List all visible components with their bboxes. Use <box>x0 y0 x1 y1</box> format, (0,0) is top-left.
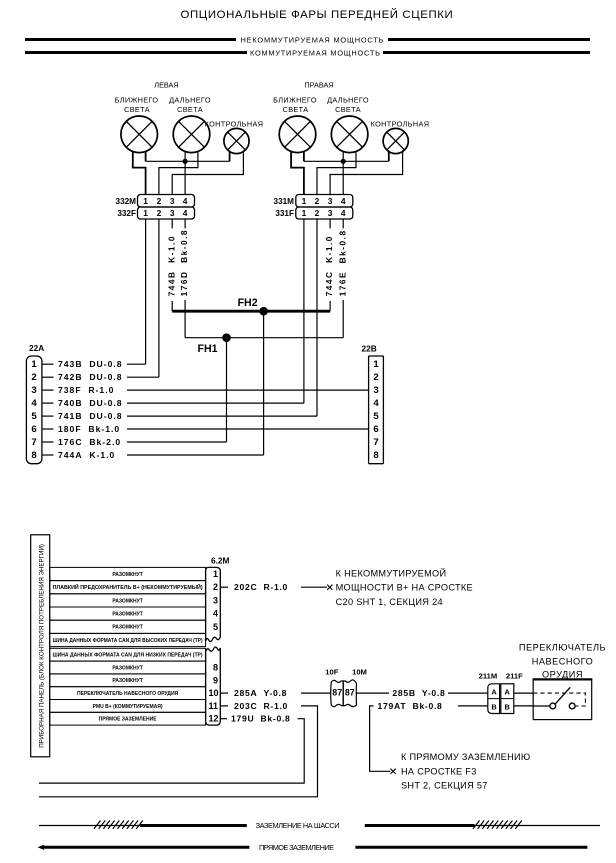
6.2M row 12 box: ПРЯМОЕ ЗАЗЕМЛЕНИЕ <box>50 712 206 725</box>
svg-text:8: 8 <box>213 663 218 673</box>
svg-text:РАЗОМКНУТ: РАЗОМКНУТ <box>112 598 142 604</box>
svg-text:ШИНА ДАННЫХ ФОРМАТА CAN ДЛЯ ВЫ: ШИНА ДАННЫХ ФОРМАТА CAN ДЛЯ ВЫСОКИХ ПЕРЕ… <box>53 638 203 644</box>
annotation: to unswitched power <box>336 567 473 607</box>
svg-text:PMU В+ (КОММУТИРУЕМАЯ): PMU В+ (КОММУТИРУЕМАЯ) <box>93 704 163 710</box>
wire 179AT from 211M pin B <box>458 705 488 707</box>
22A pin 8 stub <box>42 454 54 456</box>
svg-text:3: 3 <box>328 208 333 218</box>
wire label 744C K-1.0 <box>324 235 334 296</box>
wire lamp L1 right terminal to left lamp bus <box>145 152 147 162</box>
svg-text:5: 5 <box>213 622 218 632</box>
lamp L1 low beam (left) <box>121 116 158 153</box>
svg-text:СВЕТА: СВЕТА <box>335 105 361 114</box>
6.2M pin 10 stub <box>220 692 228 694</box>
svg-text:НА СРОСТКЕ F3: НА СРОСТКЕ F3 <box>401 766 477 776</box>
22A pin 7 stub <box>42 441 54 443</box>
wire 743B from 22A pin 1 <box>127 363 146 365</box>
svg-text:ПЛАВКИЙ ПРЕДОХРАНИТЕЛЬ В+ (НЕК: ПЛАВКИЙ ПРЕДОХРАНИТЕЛЬ В+ (НЕКОММУТИРУЕМ… <box>53 583 203 591</box>
connector 331M <box>296 195 353 208</box>
wire label 285A Y-0.8 <box>234 688 287 698</box>
svg-text:РАЗОМКНУТ: РАЗОМКНУТ <box>112 625 142 631</box>
svg-text:176E Bk-0.8: 176E Bk-0.8 <box>337 229 347 296</box>
svg-text:5: 5 <box>31 411 37 422</box>
connector 211M <box>488 684 500 714</box>
svg-text:РАЗОМКНУТ: РАЗОМКНУТ <box>112 678 142 684</box>
direct ground rail <box>38 845 588 850</box>
svg-text:ПРАВАЯ: ПРАВАЯ <box>304 81 333 90</box>
6.2M row 1 box: РАЗОМКНУТ <box>50 567 206 580</box>
wire label 741B DU-0.8 <box>58 411 123 421</box>
svg-text:10: 10 <box>209 688 219 698</box>
junction dot left lamp bus <box>183 159 188 164</box>
lamp R2 label <box>327 96 369 114</box>
svg-text:СВЕТА: СВЕТА <box>124 105 150 114</box>
svg-text:87: 87 <box>332 688 342 698</box>
svg-text:738F R-1.0: 738F R-1.0 <box>58 385 114 395</box>
svg-text:9: 9 <box>213 675 218 685</box>
wire label 180F Bk-1.0 <box>58 424 120 434</box>
wire 332F pin2 down to 22A pin2 row <box>158 219 160 377</box>
svg-text:331F: 331F <box>275 209 294 218</box>
label LEVAYA (left group) <box>154 81 178 90</box>
svg-text:4: 4 <box>183 208 188 218</box>
svg-text:2: 2 <box>213 582 218 592</box>
6.2M row 2 box: ПЛАВКИЙ ПРЕДОХРАНИТЕЛЬ В+ (НЕКОММУТИРУЕМЫЙ) <box>50 581 206 594</box>
connector 211F <box>501 684 514 714</box>
svg-text:1: 1 <box>31 359 37 370</box>
svg-text:87: 87 <box>345 688 355 698</box>
switch contact right <box>569 703 575 709</box>
svg-text:179U Bk-0.8: 179U Bk-0.8 <box>231 714 291 724</box>
svg-text:6: 6 <box>31 424 36 435</box>
wire lamp R2 right terminal to pin 331M-2 <box>317 152 356 195</box>
svg-text:FH2: FH2 <box>238 297 258 309</box>
svg-text:332F: 332F <box>117 209 136 218</box>
connector 22A <box>26 356 42 464</box>
6.2M pin 3 number <box>213 595 218 605</box>
svg-text:НЕКОММУТИРУЕМАЯ МОЩНОСТЬ: НЕКОММУТИРУЕМАЯ МОЩНОСТЬ <box>241 35 384 44</box>
svg-text:12: 12 <box>209 714 219 724</box>
6.2M row 8 box: РАЗОМКНУТ <box>50 661 206 674</box>
6.2M row 4 box: РАЗОМКНУТ <box>50 607 206 620</box>
svg-text:СВЕТА: СВЕТА <box>283 105 309 114</box>
svg-text:7: 7 <box>31 437 36 448</box>
svg-text:176D Bk-0.8: 176D Bk-0.8 <box>179 229 189 296</box>
22A pin 4 stub <box>42 402 54 404</box>
svg-text:10F: 10F <box>325 668 338 677</box>
22A pin 3 stub <box>42 389 54 391</box>
wire 285A to connector 10F <box>301 692 331 694</box>
svg-text:ОПЦИОНАЛЬНЫЕ ФАРЫ ПЕРЕДНЕЙ СЦЕ: ОПЦИОНАЛЬНЫЕ ФАРЫ ПЕРЕДНЕЙ СЦЕПКИ <box>181 8 454 21</box>
svg-text:743B DU-0.8: 743B DU-0.8 <box>58 359 123 369</box>
svg-text:180F Bk-1.0: 180F Bk-1.0 <box>58 424 120 434</box>
svg-text:КОММУТИРУЕМАЯ МОЩНОСТЬ: КОММУТИРУЕМАЯ МОЩНОСТЬ <box>250 48 380 57</box>
svg-text:285A Y-0.8: 285A Y-0.8 <box>234 688 287 698</box>
svg-text:FH1: FH1 <box>197 343 217 355</box>
svg-text:К ПРЯМОМУ ЗАЗЕМЛЕНИЮ: К ПРЯМОМУ ЗАЗЕМЛЕНИЮ <box>401 752 531 762</box>
svg-text:A: A <box>491 687 497 696</box>
wire 180F from 22A pin 6 <box>127 428 369 430</box>
switched power rail <box>25 51 590 54</box>
lamp L2 label <box>169 96 211 114</box>
svg-text:4: 4 <box>341 196 346 206</box>
svg-text:4: 4 <box>31 398 37 409</box>
svg-text:1: 1 <box>213 569 218 579</box>
svg-text:1: 1 <box>373 359 379 370</box>
wire label 179AT Bk-0.8 <box>378 701 443 711</box>
svg-text:4: 4 <box>341 208 346 218</box>
svg-text:22A: 22A <box>29 343 44 353</box>
svg-text:МОЩНОСТИ В+ НА СРОСТКЕ: МОЩНОСТИ В+ НА СРОСТКЕ <box>336 583 473 593</box>
svg-text:2: 2 <box>157 208 162 218</box>
wire left lamp bus (L1 right / junction / L3 left) <box>146 160 230 162</box>
FH2 label <box>238 297 258 309</box>
svg-text:740B DU-0.8: 740B DU-0.8 <box>58 398 123 408</box>
switch linkage (dashed) <box>533 693 585 706</box>
wire label 740B DU-0.8 <box>58 398 123 408</box>
switched power rail label <box>250 48 380 57</box>
implement switch box <box>533 679 593 719</box>
wire FH2 to 22A pin8 row <box>263 311 265 455</box>
svg-text:741B DU-0.8: 741B DU-0.8 <box>58 411 123 421</box>
svg-text:744A K-1.0: 744A K-1.0 <box>58 450 115 460</box>
wire 738F from 22A pin 3 <box>127 389 369 391</box>
lamp L3 label <box>205 120 264 129</box>
svg-text:179АТ Bk-0.8: 179АТ Bk-0.8 <box>378 701 443 711</box>
6.2M row 5 box: РАЗОМКНУТ <box>50 620 206 633</box>
wire label 176E Bk-0.8 <box>337 229 347 296</box>
6.2M pin 8 number <box>213 663 218 673</box>
lamp R2 high beam (right) <box>331 116 368 153</box>
switch lever <box>555 687 570 704</box>
svg-text:ЗАЗЕМЛЕНИЕ НА ШАССИ: ЗАЗЕМЛЕНИЕ НА ШАССИ <box>256 821 340 830</box>
wire 332F pin1 down to 22A pin1 row <box>145 219 147 364</box>
connector label 6.2M <box>211 556 230 566</box>
connector 331F <box>296 207 353 219</box>
connector label 22A <box>29 343 44 353</box>
implement switch label <box>519 643 606 680</box>
wire 285B to 211M pin A <box>448 692 488 694</box>
svg-text:C20 SHT 1, СЕКЦИЯ 24: C20 SHT 1, СЕКЦИЯ 24 <box>336 597 443 607</box>
lamp L1 label <box>115 96 159 114</box>
wire 179U right then down and left <box>39 719 304 783</box>
6.2M row 3 box: РАЗОМКНУТ <box>50 594 206 607</box>
chassis ground hatching left <box>94 821 143 829</box>
10F pin 87 number <box>332 688 342 698</box>
wire 285B from 10M <box>356 692 389 694</box>
6.2M pin 1 number <box>213 569 218 579</box>
6.2M row 11 box: PMU В+ (КОММУТИРУЕМАЯ) <box>50 700 206 713</box>
wire 741B from 22A pin 5 <box>127 415 317 417</box>
svg-text:742B DU-0.8: 742B DU-0.8 <box>58 372 123 382</box>
wire label 176C Bk-2.0 <box>58 437 121 447</box>
6.2M pin 9 number <box>213 675 218 685</box>
lamp L3 indicator (left) <box>224 128 249 153</box>
6.2M pin 2 number <box>213 582 218 592</box>
wire label 176D Bk-0.8 <box>179 229 189 296</box>
svg-text:К НЕКОММУТИРУЕМОЙ: К НЕКОММУТИРУЕМОЙ <box>336 567 447 578</box>
wire 176C from 22A pin 7 <box>127 441 227 443</box>
6.2M pin 12 stub <box>220 718 227 720</box>
connector 6.2M body upper part (pins 1-5) <box>206 567 221 641</box>
direct ground rail label <box>259 843 334 852</box>
chassis ground rail label <box>256 821 340 830</box>
splice symbol (to unswitched power) <box>327 585 332 590</box>
svg-text:ПРЯМОЕ ЗАЗЕМЛЕНИЕ: ПРЯМОЕ ЗАЗЕМЛЕНИЕ <box>259 843 334 852</box>
wire 331F pin1 down to 22A pin4 row <box>303 219 305 403</box>
svg-text:211F: 211F <box>506 672 523 681</box>
connector 6.2M body lower part (pins 8-12) <box>206 647 221 725</box>
svg-text:1: 1 <box>143 208 148 218</box>
svg-text:B: B <box>491 703 496 712</box>
annotation: to direct ground <box>401 752 531 790</box>
22A pin 1 stub <box>42 363 54 365</box>
wire 203C right then down and left <box>39 706 318 797</box>
10M pin 87 number <box>345 688 355 698</box>
svg-text:ПРЯМОЕ ЗАЗЕМЛЕНИЕ: ПРЯМОЕ ЗАЗЕМЛЕНИЕ <box>99 717 158 723</box>
connector labels 211M 211F <box>479 672 523 681</box>
wire label 742B DU-0.8 <box>58 372 123 382</box>
svg-text:1: 1 <box>143 196 148 206</box>
svg-text:331M: 331M <box>274 197 295 206</box>
wire 740B from 22A pin 4 <box>127 402 304 404</box>
wire lamp R1 left terminal to pin 331M-1 <box>291 152 304 195</box>
splice symbol (to direct ground) <box>391 769 396 774</box>
6.2M row 7 box: ШИНА ДАННЫХ ФОРМАТА CAN ДЛЯ НИЗКИХ ПЕРЕДАЧ (ТР) <box>50 648 206 661</box>
lamp L2 high beam (left) <box>173 116 210 153</box>
6.2M row 6 box: ШИНА ДАННЫХ ФОРМАТА CAN ДЛЯ ВЫСОКИХ ПЕРЕДАЧ (ТР) <box>50 633 206 646</box>
wire 176E Bk-0.8 (331F pin4 to FH1) <box>342 219 344 338</box>
wire lamp L3 right terminal to pin 332M-3 <box>172 151 243 195</box>
wire 179AT down to ground splice <box>370 706 391 771</box>
svg-text:211M: 211M <box>479 672 498 681</box>
svg-text:КОНТРОЛЬНАЯ: КОНТРОЛЬНАЯ <box>371 120 430 129</box>
22A pin 2 stub <box>42 376 54 378</box>
svg-text:744C K-1.0: 744C K-1.0 <box>324 235 334 296</box>
junction dot FH1 <box>222 333 231 342</box>
6.2M pin 2 stub <box>220 586 228 588</box>
svg-text:ДАЛЬНЕГО: ДАЛЬНЕГО <box>327 96 369 105</box>
switch contact left <box>550 703 556 709</box>
svg-text:ПРИБОРНАЯ ПАНЕЛЬ (БЛОК КОНТРОЛ: ПРИБОРНАЯ ПАНЕЛЬ (БЛОК КОНТРОЛЯ ПОТРЕБЛЕ… <box>38 544 45 748</box>
svg-text:3: 3 <box>328 196 333 206</box>
svg-text:СВЕТА: СВЕТА <box>177 105 203 114</box>
svg-text:2: 2 <box>315 196 320 206</box>
svg-text:203C R-1.0: 203C R-1.0 <box>234 701 288 711</box>
wire 742B from 22A pin 2 <box>127 376 159 378</box>
svg-text:SHT 2, СЕКЦИЯ 57: SHT 2, СЕКЦИЯ 57 <box>401 780 488 790</box>
svg-text:8: 8 <box>31 450 37 461</box>
wire label 179U Bk-0.8 <box>231 714 291 724</box>
label PRAVAYA (right group) <box>304 81 333 90</box>
svg-text:2: 2 <box>157 196 162 206</box>
svg-text:ПЕРЕКЛЮЧАТЕЛЬ: ПЕРЕКЛЮЧАТЕЛЬ <box>519 643 606 653</box>
FH1 label <box>197 343 217 355</box>
svg-text:ШИНА ДАННЫХ ФОРМАТА CAN ДЛЯ НИ: ШИНА ДАННЫХ ФОРМАТА CAN ДЛЯ НИЗКИХ ПЕРЕД… <box>53 653 203 659</box>
svg-text:3: 3 <box>31 385 36 396</box>
wire lamp L2 right terminal to pin 332M-2 <box>159 152 198 195</box>
wire 211F pin B to switch <box>514 705 533 707</box>
svg-text:КОНТРОЛЬНАЯ: КОНТРОЛЬНАЯ <box>205 120 264 129</box>
svg-text:2: 2 <box>31 372 36 383</box>
svg-text:332M: 332M <box>116 197 137 206</box>
splice wire FH1 <box>185 337 343 339</box>
svg-text:10M: 10M <box>352 668 367 677</box>
wire lamp R1 right terminal to right lamp bus <box>303 152 305 162</box>
svg-text:2: 2 <box>315 208 320 218</box>
svg-text:ДАЛЬНЕГО: ДАЛЬНЕГО <box>169 96 211 105</box>
wire lamp L2 left terminal to pin 332F-4 <box>184 152 186 195</box>
connector label 331F <box>275 209 294 218</box>
22A pin 6 stub <box>42 428 54 430</box>
svg-text:РАЗОМКНУТ: РАЗОМКНУТ <box>112 665 142 671</box>
6.2M pin 10 number <box>209 688 219 698</box>
svg-text:3: 3 <box>170 208 175 218</box>
svg-text:8: 8 <box>373 450 379 461</box>
svg-text:4: 4 <box>373 398 379 409</box>
lamp R3 label <box>371 120 430 129</box>
svg-text:6.2M: 6.2M <box>211 556 230 566</box>
wire 202C to unswitched power splice <box>301 586 327 588</box>
wire right lamp bus (R1 right / junction / R3 left) <box>304 160 389 162</box>
wire label 203C R-1.0 <box>234 701 288 711</box>
svg-text:202C R-1.0: 202C R-1.0 <box>234 582 288 592</box>
svg-text:22B: 22B <box>362 344 377 354</box>
connector 10M (half, pin 87) <box>343 680 356 707</box>
connector 22B <box>369 356 384 464</box>
svg-text:744B K-1.0: 744B K-1.0 <box>166 235 176 296</box>
wire 744B K-1.0 (332F pin3 to FH2) <box>171 219 173 311</box>
wire label 738F R-1.0 <box>58 385 114 395</box>
wire 331F pin2 down to 22A pin5 row <box>316 219 318 416</box>
svg-text:ОРУДИЯ: ОРУДИЯ <box>542 669 583 679</box>
svg-text:РАЗОМКНУТ: РАЗОМКНУТ <box>112 572 142 578</box>
junction dot FH2 <box>259 307 268 316</box>
lamp R1 label <box>273 96 317 114</box>
connector labels 10F 10M <box>325 668 367 677</box>
connector label 331M <box>274 197 295 206</box>
chassis ground rail <box>39 825 600 827</box>
svg-text:285B Y-0.8: 285B Y-0.8 <box>392 688 445 698</box>
connector 10F (half, pin 87) <box>331 680 344 706</box>
svg-text:7: 7 <box>373 437 378 448</box>
lamp R1 low beam (right) <box>279 116 316 153</box>
svg-text:ЛЕВАЯ: ЛЕВАЯ <box>154 81 178 90</box>
svg-text:176C Bk-2.0: 176C Bk-2.0 <box>58 437 121 447</box>
6.2M pin 11 number <box>209 701 219 711</box>
title <box>181 8 454 21</box>
connector label 332M <box>116 197 137 206</box>
6.2M pin 5 number <box>213 622 218 632</box>
wire FH1 to 22A pin7 row <box>226 338 228 442</box>
connector label 22B <box>362 344 377 354</box>
connector label 332F <box>117 209 136 218</box>
svg-text:1: 1 <box>302 196 307 206</box>
wire lamp R3 left terminal drop <box>388 151 390 162</box>
svg-text:4: 4 <box>183 196 188 206</box>
unswitched power rail <box>25 38 590 41</box>
wire 744A from 22A pin 8 <box>127 454 264 456</box>
splice bus FH2 <box>172 310 330 313</box>
wire label 743B DU-0.8 <box>58 359 123 369</box>
svg-text:НАВЕСНОГО: НАВЕСНОГО <box>532 656 594 666</box>
wire label 744B K-1.0 <box>166 235 176 296</box>
unswitched power rail label <box>241 35 384 44</box>
svg-text:БЛИЖНЕГО: БЛИЖНЕГО <box>115 96 159 105</box>
svg-text:6: 6 <box>373 424 378 435</box>
6.2M row 9 box: РАЗОМКНУТ <box>50 674 206 687</box>
wire label 285B Y-0.8 <box>392 688 445 698</box>
6.2M pin 11 stub <box>220 705 228 707</box>
svg-text:11: 11 <box>209 701 219 711</box>
svg-text:4: 4 <box>213 609 218 619</box>
svg-text:B: B <box>505 703 510 712</box>
6.2M pin 4 number <box>213 609 218 619</box>
svg-text:ПЕРЕКЛЮЧАТЕЛЬ НАВЕСНОГО ОРУДИЯ: ПЕРЕКЛЮЧАТЕЛЬ НАВЕСНОГО ОРУДИЯ <box>77 691 179 697</box>
chassis ground hatching right <box>473 821 522 829</box>
6.2M row 10 box: ПЕРЕКЛЮЧАТЕЛЬ НАВЕСНОГО ОРУДИЯ <box>50 687 206 700</box>
wire lamp R2 left terminal to pin 331F-4 <box>342 152 344 195</box>
lamp R3 indicator (right) <box>383 128 408 153</box>
22A pin 5 stub <box>42 415 54 417</box>
wire 744C K-1.0 (331F pin3 to FH2) <box>329 219 331 311</box>
wire lamp L1 left terminal to pin 332M-1 <box>133 152 146 195</box>
svg-text:РАЗОМКНУТ: РАЗОМКНУТ <box>112 612 142 618</box>
svg-text:БЛИЖНЕГО: БЛИЖНЕГО <box>273 96 317 105</box>
svg-text:2: 2 <box>373 372 378 383</box>
junction dot right lamp bus <box>341 159 346 164</box>
wire lamp R3 right terminal to pin 331M-3 <box>330 151 403 195</box>
wire 211F pin A to switch <box>514 692 533 694</box>
wire label 202C R-1.0 <box>234 582 288 592</box>
svg-text:3: 3 <box>170 196 175 206</box>
switch contact wire B <box>533 705 550 707</box>
svg-text:A: A <box>505 687 511 696</box>
wire label 744A K-1.0 <box>58 450 115 460</box>
svg-text:5: 5 <box>373 411 379 422</box>
svg-text:3: 3 <box>213 595 218 605</box>
connector 332M <box>138 195 195 208</box>
instrument panel block (rotated label box) <box>31 535 50 757</box>
wire lamp L3 left terminal drop <box>229 151 231 162</box>
connector 332F <box>138 207 195 219</box>
svg-text:1: 1 <box>302 208 307 218</box>
svg-text:3: 3 <box>373 385 378 396</box>
wire 176D Bk-0.8 (332F pin4 to FH1) <box>184 219 186 338</box>
6.2M pin 12 number <box>209 714 219 724</box>
